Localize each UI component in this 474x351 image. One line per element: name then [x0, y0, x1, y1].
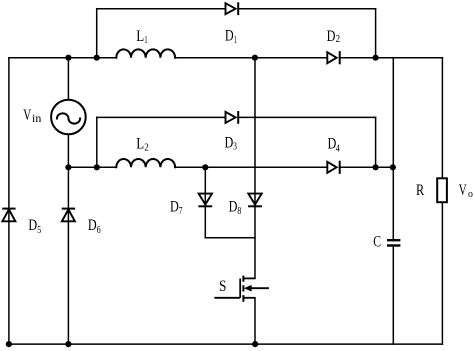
wire D7 branch vertical: [204, 167, 206, 237]
wire D7 branch horizontal: [205, 237, 255, 239]
wire vertical x=375.6 rowA to rowB: [375, 9, 377, 58]
inductor L2 coil: [116, 159, 175, 167]
wire Vin bottom lead through D6 to bottom rail: [67, 134, 69, 344]
svg-text:3: 3: [233, 141, 237, 153]
svg-text:D: D: [327, 28, 336, 45]
wire vertical x=96.7 rowA to rowB: [96, 9, 98, 58]
wire vertical x=96.8 rowC to rowD: [96, 117, 98, 167]
svg-text:in: in: [32, 113, 42, 125]
wire R rail top: [441, 58, 443, 179]
svg-text:R: R: [416, 182, 425, 199]
wire capacitor rail top: [392, 58, 394, 240]
svg-text:D: D: [225, 135, 234, 152]
svg-text:D: D: [229, 199, 238, 216]
wire row A top bypass: [97, 8, 376, 10]
wire capacitor rail bottom: [392, 246, 394, 344]
svg-text:8: 8: [237, 205, 241, 217]
junction capacitor rail / row D: [390, 164, 396, 170]
resistor R box: [437, 178, 447, 202]
gate plate: [239, 279, 241, 298]
wire row D right segments: [175, 166, 393, 168]
source Vin circle: [51, 100, 86, 135]
wire row B middle segment: [175, 57, 442, 59]
svg-text:D: D: [28, 217, 37, 234]
body line: [249, 287, 269, 289]
transistor S (MOSFET): [214, 276, 269, 302]
junction D1 bypass left / row B: [94, 55, 100, 61]
source lead: [243, 297, 255, 299]
diode D5 (points up): [2, 209, 15, 222]
svg-text:4: 4: [336, 142, 340, 154]
gate lead: [214, 297, 240, 299]
svg-text:D: D: [88, 217, 97, 234]
svg-text:C: C: [373, 233, 381, 250]
svg-text:D: D: [170, 198, 179, 215]
svg-text:2: 2: [144, 142, 149, 154]
diode D8 (points down): [248, 194, 262, 207]
junction switch branch / row B: [252, 55, 258, 61]
svg-text:2: 2: [336, 33, 341, 45]
channel segments: [242, 276, 244, 302]
capacitor C plates: [387, 240, 400, 245]
svg-text:L: L: [136, 136, 144, 153]
svg-text:S: S: [219, 278, 226, 295]
svg-text:D: D: [225, 27, 234, 44]
svg-text:L: L: [136, 28, 144, 45]
diode D7 (points down): [198, 194, 212, 207]
junction D6 / bottom rail: [65, 341, 71, 347]
wire row D left segment: [68, 166, 116, 168]
wire row C D3 bypass: [97, 116, 376, 118]
junction left rail / bottom rail: [6, 341, 12, 347]
svg-text:o: o: [468, 188, 473, 200]
junction D3 bypass right / row D: [373, 164, 379, 170]
svg-text:V: V: [459, 182, 467, 199]
svg-text:5: 5: [37, 224, 41, 236]
wire row B left segment: [9, 57, 116, 59]
svg-text:7: 7: [179, 205, 183, 217]
drain lead: [243, 277, 255, 279]
mosfet body arrowhead: [244, 285, 252, 292]
svg-text:1: 1: [234, 34, 237, 46]
junction Vin bottom / row D: [65, 164, 71, 170]
wire Vin top lead: [67, 58, 69, 100]
junction D3 bypass left / row D: [94, 164, 100, 170]
source Vin sine: [57, 113, 80, 123]
inductor L1 coil: [116, 49, 175, 57]
svg-text:1: 1: [144, 34, 147, 46]
diode D6 (points up): [62, 209, 75, 222]
junction mosfet source / bottom rail: [252, 341, 258, 347]
wire left rail: [8, 58, 10, 344]
diode D3: [226, 111, 239, 124]
wire drain/D8 vertical from row B to mosfet: [254, 58, 256, 279]
junction Vin top / row B: [65, 55, 71, 61]
wire mosfet source lead to bottom rail: [254, 298, 256, 344]
wire R rail bottom: [441, 202, 443, 344]
junction D7 branch / row D: [202, 164, 208, 170]
svg-text:6: 6: [97, 224, 101, 236]
diode D2: [327, 51, 339, 64]
svg-text:V: V: [23, 107, 31, 124]
junction D1 bypass right / row B: [373, 55, 379, 61]
wire vertical x=375.6 rowC to rowD: [375, 117, 377, 167]
diode D4: [327, 161, 339, 174]
diode D1: [226, 2, 239, 15]
wire bottom rail: [9, 343, 443, 345]
